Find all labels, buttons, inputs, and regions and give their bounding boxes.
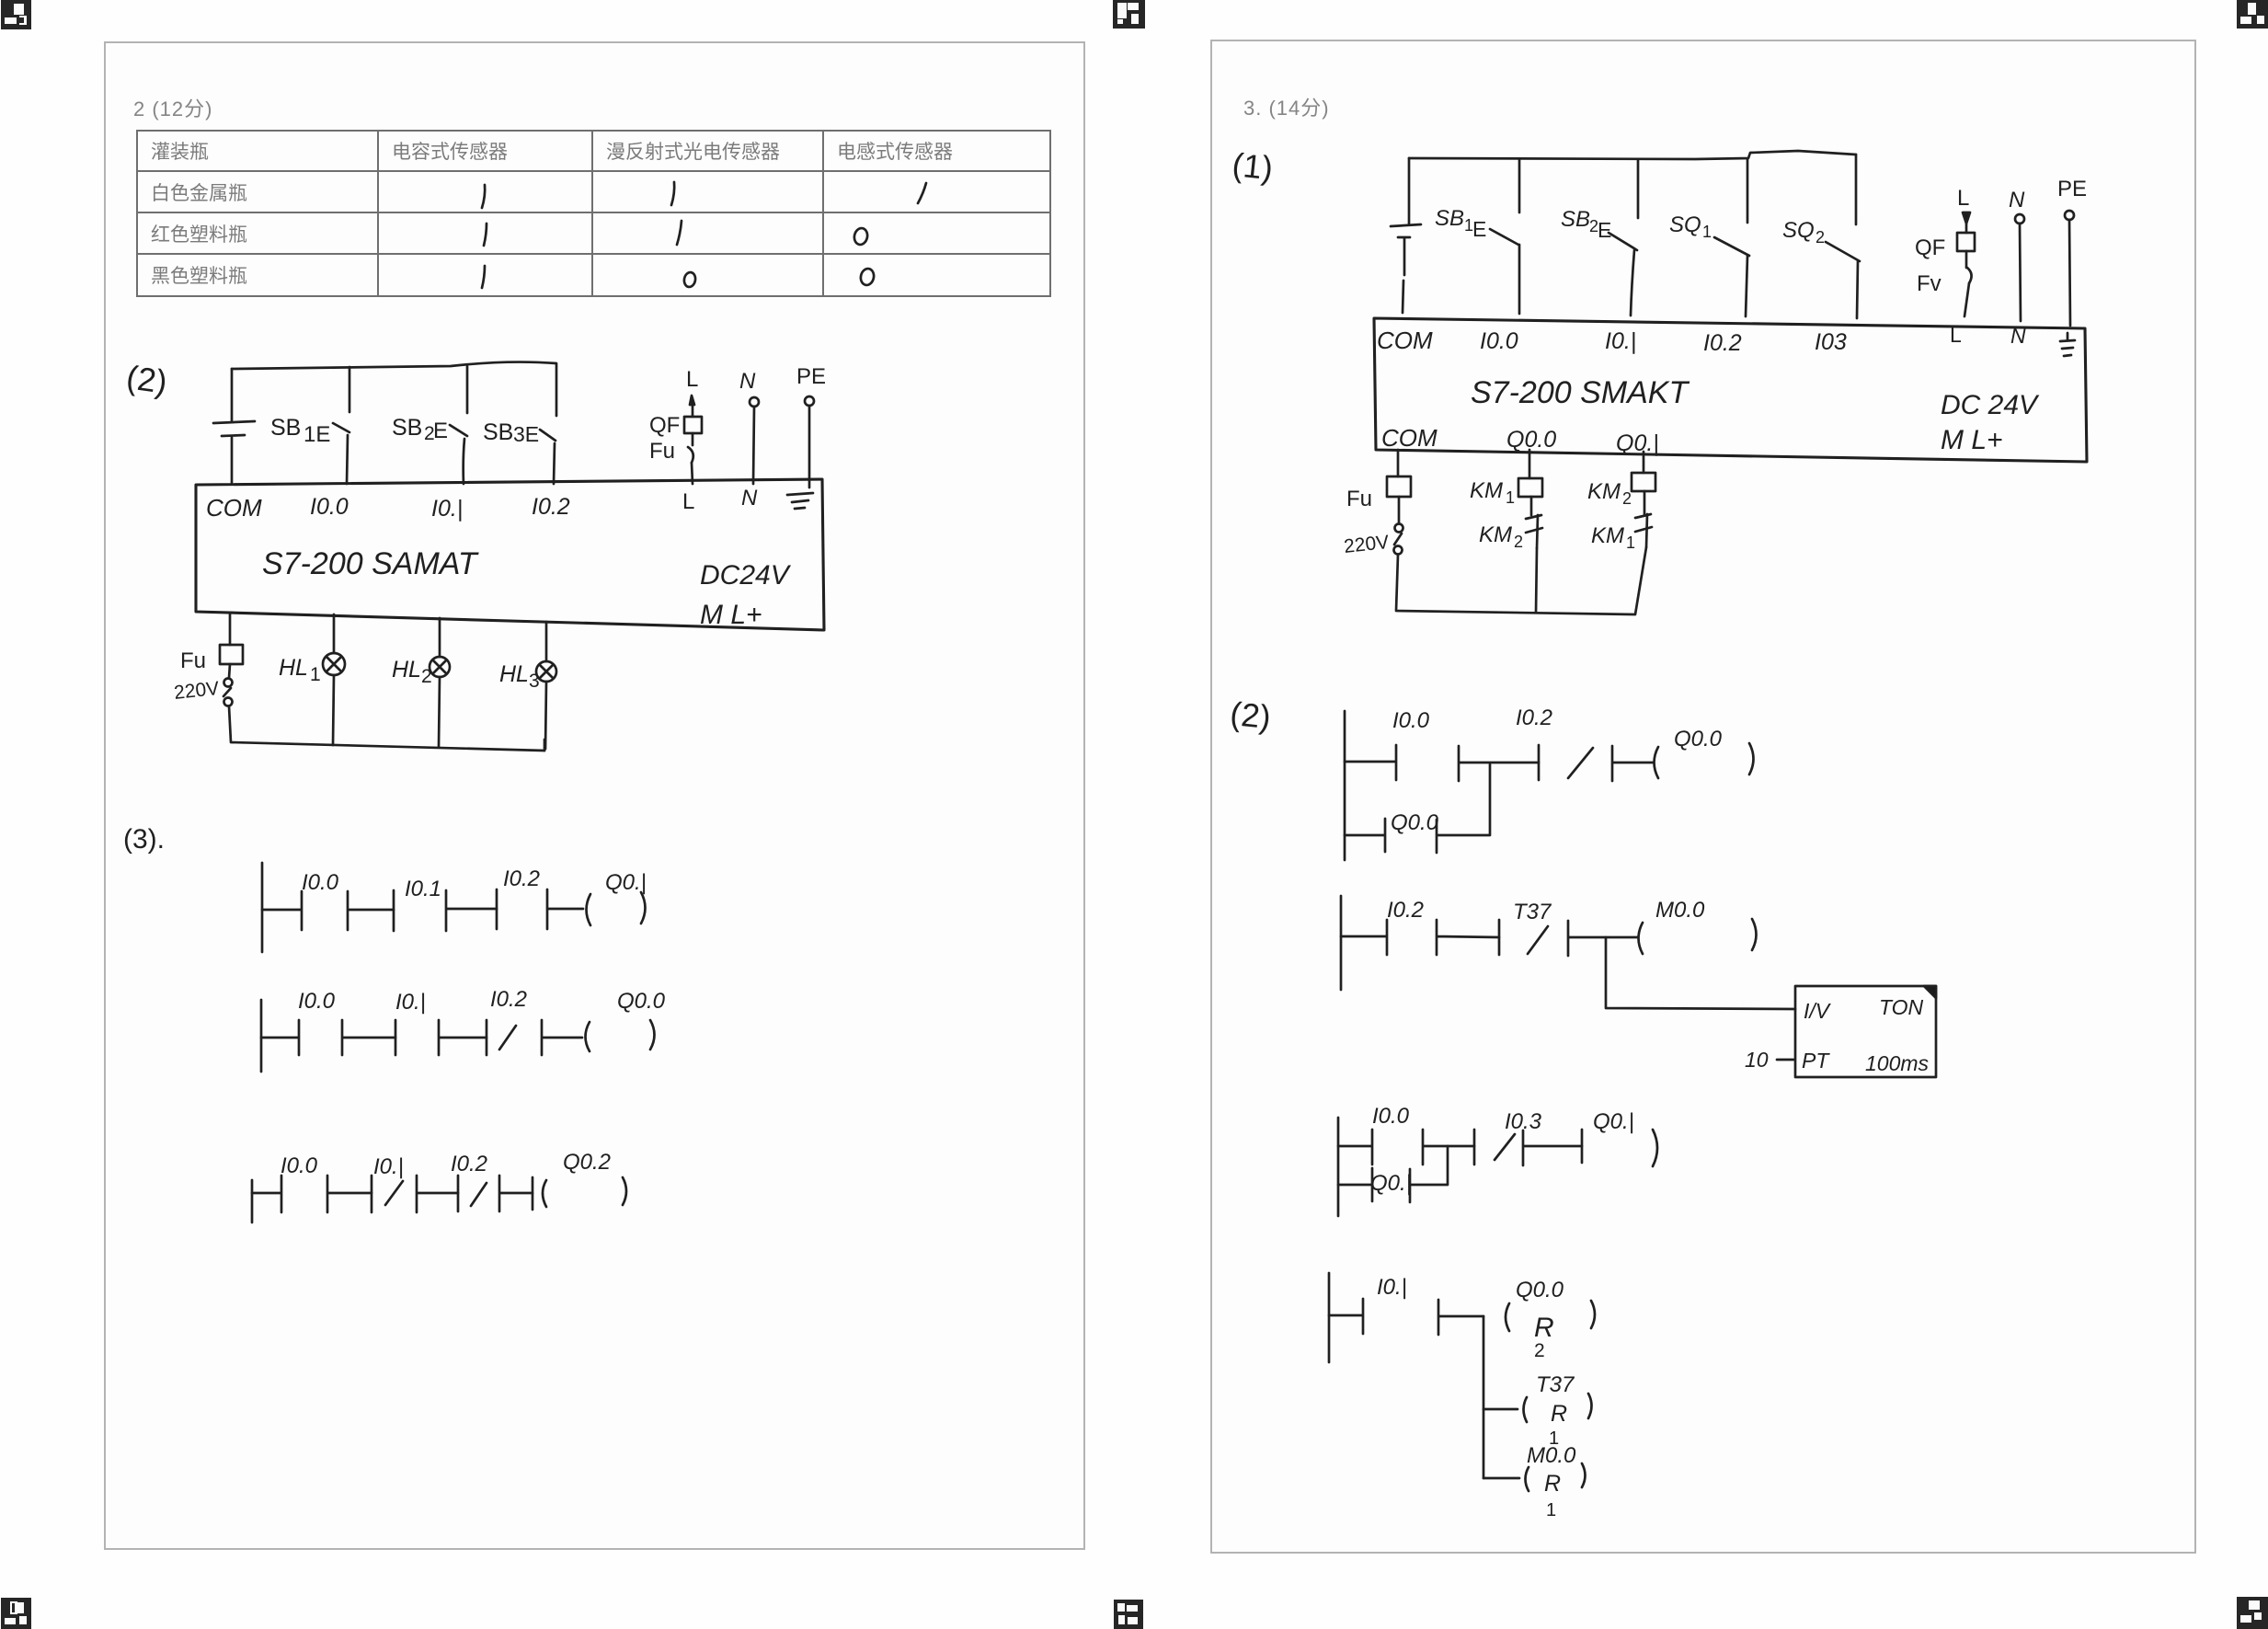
svg-text:2: 2 [1816,228,1825,247]
wire: top supply rail (right circuit) [1409,151,1856,159]
svg-text:220V: 220V [1343,532,1390,557]
svg-text:KM: KM [1587,479,1621,504]
wire KM branch 1 down to rail [1536,548,1537,613]
svg-text:HL: HL [392,657,421,683]
table cell value 1 (red plastic / capacitive) [484,224,487,246]
svg-text:M L+: M L+ [700,600,762,630]
r-rung4 branch trunk [1483,1316,1485,1478]
table cell value 1 (red plastic / photoelectric) [677,221,682,245]
svg-text:Q0.2: Q0.2 [563,1150,611,1175]
svg-text:Q0.|: Q0.| [1370,1171,1412,1196]
svg-text:Fu: Fu [180,648,206,673]
svg-text:HL: HL [279,655,308,681]
svg-text:(2): (2) [1229,694,1273,736]
svg-text:E: E [1598,218,1611,242]
svg-text:HL: HL [499,661,529,687]
table cell value 1 (black plastic / capacitive) [482,266,485,288]
svg-text:R: R [1534,1313,1554,1343]
svg-text:N: N [2010,324,2026,348]
svg-text:SQ: SQ [1669,212,1701,237]
svg-text:1: 1 [1626,533,1635,552]
svg-text:KM: KM [1479,522,1512,547]
wire: output common and bottom rail (right circuit) [1396,555,1634,614]
svg-text:I0.|: I0.| [373,1154,404,1179]
svg-text:I0.2: I0.2 [1703,330,1742,356]
wire KM branch 2 down to rail end [1635,547,1646,614]
svg-text:I0.2: I0.2 [451,1152,487,1176]
svg-text:SB: SB [1561,207,1590,232]
svg-text:SB: SB [483,419,513,445]
svg-text:I0.0: I0.0 [1480,328,1518,354]
svg-text:I0.2: I0.2 [532,494,570,520]
svg-text:1: 1 [1546,1500,1556,1520]
fiducial marker top-right [2237,0,2268,29]
table cell value 0 (black plastic / inductive) [859,268,875,287]
printed heading problem 2 [133,93,212,122]
svg-text:Fu: Fu [649,439,675,464]
svg-text:T37: T37 [1513,900,1552,924]
wire: COM drop through battery [231,369,234,421]
svg-text:QF: QF [649,413,680,438]
svg-text:QF: QF [1915,235,1945,260]
right ladder rung 1 left rail [1344,711,1346,860]
ladder rung 3 left rail [251,1180,254,1222]
wire: top supply rail (left circuit) [232,362,556,369]
svg-text:I0.2: I0.2 [1516,706,1552,730]
svg-text:I0.2: I0.2 [503,866,540,891]
svg-text:I/V: I/V [1804,999,1832,1023]
fiducial marker bottom-left [1,1598,31,1629]
svg-text:Q0.0: Q0.0 [1391,810,1439,835]
svg-text:I0.|: I0.| [431,496,463,522]
timer branch wire [1606,937,1795,1009]
svg-text:T37: T37 [1536,1372,1575,1397]
svg-text:1: 1 [310,664,321,685]
fiducial marker top-middle [1113,0,1145,29]
wire: COM drop through battery (right) [1408,158,1411,224]
svg-text:I0.1: I0.1 [405,877,441,901]
svg-text:SB: SB [392,415,422,441]
svg-text:L: L [1957,186,1969,211]
svg-text:N: N [739,369,756,394]
svg-text:TON: TON [1879,995,1924,1019]
svg-text:M0.0: M0.0 [1655,898,1705,923]
svg-text:N: N [741,486,758,510]
svg-text:3: 3 [529,671,540,692]
fiducial marker top-left [1,0,31,29]
svg-text:I0.0: I0.0 [310,494,349,520]
svg-text:(1): (1) [1231,145,1275,187]
svg-text:I0.0: I0.0 [281,1153,318,1178]
svg-text:PT: PT [1802,1049,1830,1073]
svg-text:Q0.0: Q0.0 [617,989,666,1014]
svg-text:(3).: (3). [123,824,165,855]
svg-text:I0.0: I0.0 [302,870,339,895]
svg-text:Q0.0: Q0.0 [1506,427,1556,453]
sensor truth table [136,130,1051,297]
right ladder rung 3 left rail [1337,1118,1340,1216]
svg-text:(2): (2) [124,358,169,401]
svg-text:R: R [1551,1401,1567,1427]
svg-text:I0.0: I0.0 [1392,708,1430,733]
timer T37 TON box [1795,986,1936,1077]
printed heading problem 3 [1243,92,1330,121]
svg-text:COM: COM [1377,327,1433,354]
terminal ground symbol (right PLC) [2067,333,2069,339]
battery B (DC source plates) [213,421,255,423]
svg-text:Q0.|: Q0.| [1616,430,1659,456]
left page sheet [104,41,1085,1550]
svg-text:COM: COM [206,494,262,522]
svg-text:220V: 220V [173,678,220,704]
svg-text:COM: COM [1381,424,1438,452]
svg-text:Q0.0: Q0.0 [1674,727,1723,751]
svg-text:KM: KM [1591,523,1624,548]
table cell value 1 (white metal / capacitive) [482,185,485,208]
svg-text:DC 24V: DC 24V [1941,390,2040,420]
svg-text:SB: SB [270,415,301,441]
svg-text:2: 2 [1534,1340,1545,1361]
table cell value 0 (black plastic / photoelectric) [683,271,697,288]
svg-text:2: 2 [1622,489,1632,508]
svg-text:N: N [2009,188,2025,212]
svg-text:I0.0: I0.0 [1372,1104,1410,1129]
svg-text:DC24V: DC24V [700,560,792,591]
svg-text:S7-200 SAMAT: S7-200 SAMAT [262,546,479,581]
ladder rung 1 left rail [261,863,264,952]
svg-text:Fv: Fv [1917,271,1942,296]
svg-text:1E: 1E [304,422,330,447]
svg-text:M0.0: M0.0 [1527,1443,1576,1468]
table cell value 1 (white metal / inductive) [918,183,926,203]
right page sheet [1210,40,2196,1554]
svg-text:L: L [686,367,698,392]
svg-text:2: 2 [1514,533,1523,551]
svg-text:PE: PE [2057,177,2087,201]
terminal ground symbol [787,493,813,495]
PLC box S7-200 (right page) [1374,318,2087,462]
svg-text:3E: 3E [513,422,539,446]
svg-text:KM: KM [1470,478,1503,503]
svg-text:SQ: SQ [1782,218,1815,243]
fiducial marker bottom-middle [1114,1600,1143,1629]
svg-text:Q0.0: Q0.0 [1516,1278,1564,1302]
svg-text:I0.|: I0.| [1377,1275,1407,1300]
svg-text:SB: SB [1435,206,1464,231]
PLC box S7-200 (left page) [196,479,824,630]
svg-text:I0.2: I0.2 [1387,898,1424,923]
ladder rung 2 left rail [260,1000,263,1072]
svg-text:M L+: M L+ [1941,425,2003,455]
svg-text:S7-200 SMAKT: S7-200 SMAKT [1471,375,1690,410]
svg-text:E: E [433,419,448,443]
table cell value 0 (red plastic / inductive) [853,227,868,247]
svg-text:R: R [1544,1471,1561,1497]
svg-text:I0.|: I0.| [395,990,426,1015]
svg-text:I0.|: I0.| [1605,328,1636,354]
wire: output common down and bottom rail [229,706,544,751]
svg-text:1: 1 [1702,223,1712,241]
svg-text:I0.2: I0.2 [490,987,527,1012]
svg-text:1: 1 [1506,488,1515,507]
svg-text:10: 10 [1745,1048,1769,1072]
svg-text:Q0.|: Q0.| [1593,1109,1634,1134]
svg-text:Fu: Fu [1346,487,1372,511]
svg-text:L: L [682,489,694,514]
svg-text:100ms: 100ms [1865,1051,1930,1075]
svg-text:PE: PE [796,364,826,389]
battery B (right circuit) [1391,224,1421,226]
svg-text:E: E [1472,217,1486,241]
right ladder rung 4 left rail [1328,1273,1331,1362]
svg-text:I0.0: I0.0 [298,989,336,1014]
fiducial marker bottom-right [2237,1597,2268,1629]
svg-text:L: L [1950,323,1962,347]
table cell value 1 (white metal / photoelectric) [671,182,674,205]
right ladder rung 2 left rail [1340,896,1343,990]
svg-text:I03: I03 [1815,329,1847,355]
